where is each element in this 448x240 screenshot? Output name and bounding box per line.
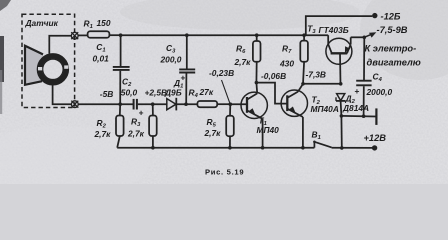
svg-text:+: + bbox=[355, 86, 360, 96]
svg-text:2,7к: 2,7к bbox=[234, 57, 252, 67]
scan streak left edge bbox=[0, 36, 4, 82]
resistor R2 bbox=[116, 104, 124, 148]
svg-text:Д9Б: Д9Б bbox=[164, 88, 182, 98]
svg-text:двигателю: двигателю bbox=[367, 57, 421, 67]
svg-text:430: 430 bbox=[279, 58, 294, 68]
node D junction (T1 base / R5) bbox=[229, 102, 233, 106]
svg-text:0,01: 0,01 bbox=[93, 53, 110, 63]
svg-text:-0,06В: -0,06В bbox=[261, 71, 286, 81]
terminal -12Б bbox=[372, 13, 377, 18]
motor arrow bbox=[364, 32, 376, 37]
svg-text:МП40А: МП40А bbox=[311, 104, 339, 114]
svg-text:2,7к: 2,7к bbox=[127, 129, 145, 139]
node J junction (C4 bottom) bbox=[362, 114, 366, 118]
terminal +12В bbox=[372, 145, 377, 150]
transistor T2 МП40А bbox=[281, 84, 307, 148]
node C3 bottom junction bbox=[184, 102, 188, 106]
wire T3 emitter to motor node bbox=[351, 36, 365, 38]
sensor pole wedge bbox=[25, 46, 43, 85]
wire D1 to node C3 bbox=[176, 103, 197, 105]
svg-text:+: + bbox=[181, 73, 186, 83]
wire motor return bbox=[341, 115, 376, 118]
wire X1 to R1 bbox=[78, 34, 88, 36]
svg-text:27к: 27к bbox=[199, 87, 214, 97]
scan smudge top-left corner bbox=[0, 0, 11, 11]
-12V supply stub bbox=[306, 16, 373, 35]
motor return terminal bar bbox=[375, 108, 377, 125]
sensor box (dashed) Датчик bbox=[22, 14, 75, 107]
resistor R4 bbox=[197, 101, 217, 107]
wire Д2 node to bottom rail bbox=[340, 116, 342, 148]
svg-text:-0,23В: -0,23В bbox=[209, 68, 234, 78]
switch В1 bbox=[313, 141, 374, 148]
mid line from X2 (-5В node) bbox=[78, 103, 133, 105]
wire sensor bottom to connector X2 bbox=[53, 85, 72, 104]
connector X top bbox=[71, 32, 78, 39]
svg-text:Д814А: Д814А bbox=[342, 103, 369, 113]
wire node F to T3 base node bbox=[303, 83, 341, 85]
resistor R5 bbox=[226, 104, 234, 148]
wire C2 to D1 bbox=[138, 103, 167, 105]
connector X bottom bbox=[71, 101, 78, 108]
svg-text:ГТ403Б: ГТ403Б bbox=[319, 25, 349, 35]
svg-text:Датчик: Датчик bbox=[25, 18, 59, 28]
resistor R3 bbox=[149, 104, 157, 148]
svg-text:-5В: -5В bbox=[100, 89, 114, 99]
svg-text:200,0: 200,0 bbox=[160, 54, 182, 64]
capacitor C3 bbox=[179, 35, 195, 104]
svg-text:+2,5В: +2,5В bbox=[145, 88, 168, 98]
capacitor C2 bbox=[134, 99, 137, 110]
svg-text:-7,3В: -7,3В bbox=[306, 70, 326, 80]
svg-text:150: 150 bbox=[97, 18, 111, 28]
svg-text:Рис. 5.19: Рис. 5.19 bbox=[205, 168, 244, 177]
wire R1 to node A bbox=[109, 34, 120, 36]
svg-text:-7,5-9В: -7,5-9В bbox=[377, 25, 408, 35]
transistor T3 ГТ403Б bbox=[326, 35, 352, 84]
svg-text:2000,0: 2000,0 bbox=[366, 87, 393, 97]
rail junction under R5 bbox=[228, 146, 232, 150]
svg-text:-12Б: -12Б bbox=[381, 12, 401, 22]
wire T1 collector to T2 base bbox=[256, 83, 287, 104]
top rail -12V bbox=[121, 34, 329, 36]
zener diode Д2 Д814А bbox=[336, 94, 345, 116]
wire R4 to node D bbox=[217, 103, 230, 105]
rail junction under R3 bbox=[151, 146, 155, 150]
node G junction (T3 base / Д2) bbox=[339, 82, 343, 86]
bottom rail +12V bbox=[117, 147, 314, 149]
capacitor C4 bbox=[356, 37, 371, 116]
diode Д1 Д9Б bbox=[167, 98, 177, 111]
node H junction (emitter/motor/C4) bbox=[363, 36, 367, 40]
svg-text:2,7к: 2,7к bbox=[94, 129, 112, 139]
node R3 top junction bbox=[151, 102, 155, 106]
sensor head ring bbox=[38, 56, 68, 83]
transistor T1 МП40 bbox=[230, 83, 267, 148]
svg-text:50,0: 50,0 bbox=[121, 87, 138, 97]
leader line -0,23В bbox=[222, 80, 230, 103]
node E junction (R6/T1 collector) bbox=[255, 81, 259, 85]
svg-text:К электро-: К электро- bbox=[365, 44, 417, 54]
node A junction bbox=[119, 33, 123, 37]
page background bbox=[0, 0, 448, 184]
resistor R1 bbox=[88, 31, 110, 38]
capacitor C1 bbox=[113, 35, 130, 104]
svg-text:+12В: +12В bbox=[364, 133, 387, 143]
resistor R7 bbox=[300, 35, 308, 84]
svg-text:2,7к: 2,7к bbox=[204, 128, 222, 138]
node I junction (Д2 / rail link) bbox=[340, 114, 344, 118]
wire sensor top to connector X1 bbox=[49, 36, 71, 54]
node B junction (C1/R2) bbox=[118, 102, 122, 106]
node F junction (R7/T2 collector) bbox=[301, 82, 305, 86]
svg-text:МП40: МП40 bbox=[257, 125, 280, 135]
svg-text:+: + bbox=[139, 108, 144, 118]
resistor R6 bbox=[253, 35, 261, 82]
